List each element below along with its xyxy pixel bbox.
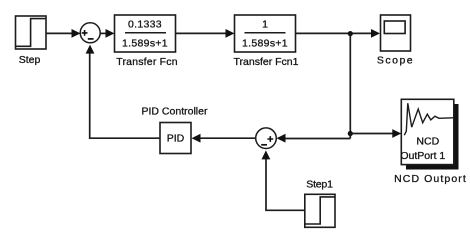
arrowhead into Transfer Fcn1 (226, 29, 235, 38)
svg-text:PID: PID (167, 133, 185, 145)
arrowhead into NCD Outport (392, 129, 401, 138)
arrowhead into PID Controller right input (192, 134, 201, 143)
wire Step to Sum (46, 32, 73, 34)
wire Sum1 to PID Controller (199, 137, 256, 139)
svg-text:0.1333: 0.1333 (128, 19, 162, 31)
svg-text:NCD Outport: NCD Outport (394, 173, 467, 185)
svg-text:Transfer Fcn1: Transfer Fcn1 (234, 56, 299, 68)
svg-text:1.589s+1: 1.589s+1 (122, 38, 168, 50)
arrowhead into Sum bottom input (86, 45, 95, 54)
wire Transfer Fcn1 to Scope (296, 32, 374, 34)
block Transfer Fcn1 (235, 15, 296, 52)
source block Step1 (305, 194, 335, 227)
wire Sum to Transfer Fcn (100, 32, 107, 34)
svg-text:Transfer Fcn: Transfer Fcn (116, 56, 178, 68)
arrowhead into Sum left input (72, 29, 81, 38)
arrowhead into Sum1 right input (277, 134, 286, 143)
wire Step1 to Sum1 bottom (266, 158, 305, 210)
sum block Sum (80, 23, 100, 43)
block PID Controller (160, 123, 191, 154)
wire Transfer Fcn to Transfer Fcn1 (176, 32, 228, 34)
scope block Scope (381, 15, 411, 51)
source block Step (16, 16, 47, 49)
wire node to Sum1 (284, 138, 350, 140)
svg-text:1: 1 (262, 19, 268, 31)
arrowhead into Sum1 bottom input (262, 150, 271, 159)
wire PID Controller feedback to Sum bottom (90, 52, 160, 138)
svg-text:PID Controller: PID Controller (142, 106, 208, 118)
wire branch down from node (349, 34, 351, 139)
svg-text:OutPort 1: OutPort 1 (400, 150, 445, 162)
node branch dot on Scope wire (348, 31, 353, 36)
svg-text:NCD: NCD (416, 135, 439, 147)
svg-text:Step1: Step1 (306, 179, 333, 191)
svg-text:1.589s+1: 1.589s+1 (242, 38, 288, 50)
wire node to NCD Outport (350, 133, 394, 135)
svg-text:Step: Step (19, 54, 41, 66)
node junction dot to NCD (348, 131, 353, 136)
block Transfer Fcn (115, 15, 176, 52)
sum block Sum1 (256, 128, 277, 149)
arrowhead into Scope (371, 29, 380, 38)
svg-text:Scope: Scope (377, 54, 414, 66)
block NCD OutPort 1 (with drop shadow) (400, 99, 458, 169)
arrowhead into Transfer Fcn (106, 29, 115, 38)
